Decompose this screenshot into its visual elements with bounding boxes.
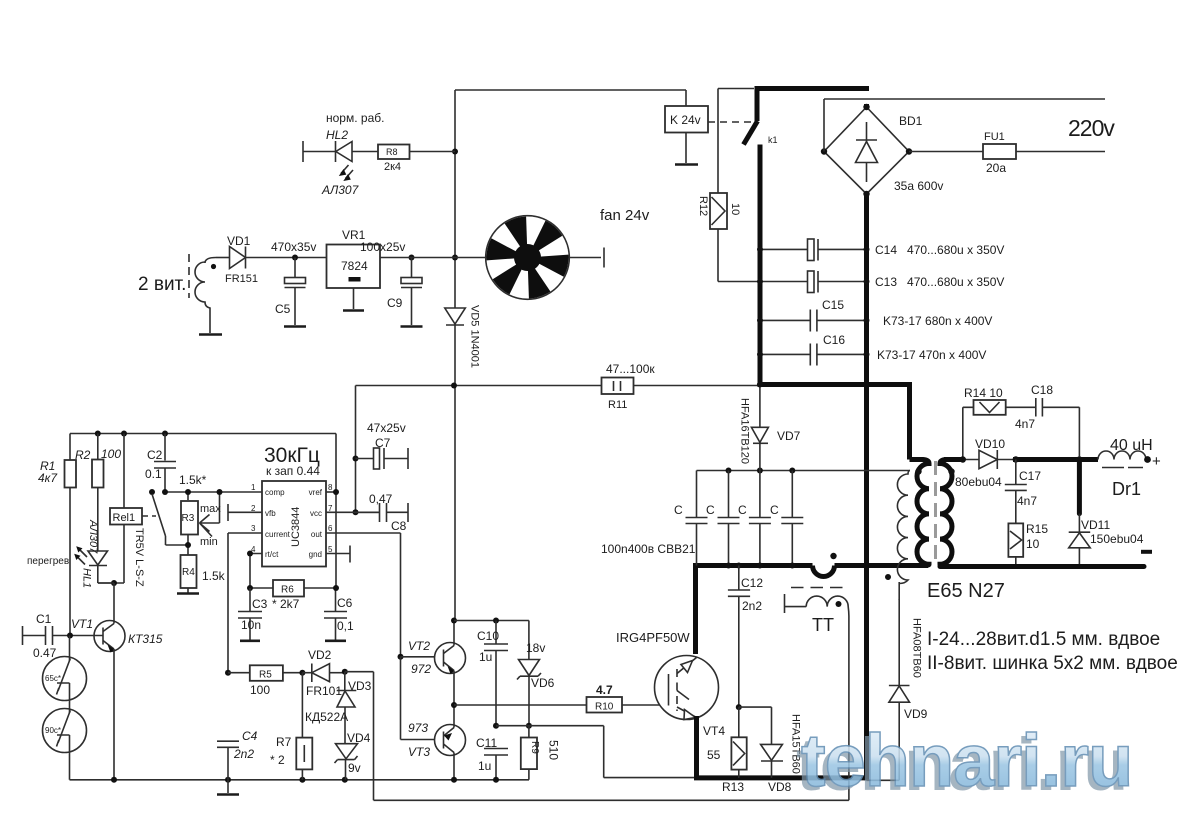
transformer core dashes — [934, 461, 937, 565]
node C11 R9 top — [493, 723, 499, 729]
svg-text:470x35v: 470x35v — [271, 240, 316, 254]
capacitor C9 electrolytic — [411, 258, 413, 278]
svg-text:C11: C11 — [476, 736, 497, 750]
wire snubber top line y470 — [697, 470, 911, 472]
svg-text:0,1: 0,1 — [337, 619, 354, 633]
switch k1 blade — [744, 121, 758, 145]
svg-text:10: 10 — [1026, 537, 1040, 551]
svg-text:R4: R4 — [182, 567, 195, 578]
wire +24v rail vertical — [454, 90, 456, 621]
capacitor C6 0,1 — [324, 612, 347, 619]
svg-text:100: 100 — [101, 447, 121, 461]
svg-text:972: 972 — [411, 662, 431, 676]
node R13 VD8 — [736, 704, 742, 710]
wire thick output minus — [940, 564, 1144, 569]
svg-text:IRG4PF50W: IRG4PF50W — [616, 630, 690, 645]
wire vref vertical down to R6 and C6 — [335, 434, 338, 612]
wire pin4 rtct — [250, 554, 262, 589]
capacitor C1 0.47 — [22, 626, 24, 645]
svg-text:VD11: VD11 — [1081, 518, 1110, 532]
transistor VT3 973 — [435, 725, 466, 756]
diode VD8 HFA15TB60 — [739, 707, 772, 744]
capacitor C snubber 2 — [728, 471, 730, 566]
wire pin2 vfb open terminal — [228, 511, 262, 513]
svg-text:1.5k: 1.5k — [202, 569, 226, 583]
svg-text:1: 1 — [251, 483, 256, 492]
wire thick mains top — [755, 86, 870, 121]
svg-text:R15: R15 — [1026, 522, 1048, 536]
svg-text:R3: R3 — [182, 513, 195, 524]
svg-text:VD7: VD7 — [777, 429, 801, 443]
ground winding — [199, 333, 222, 336]
transformer secondary winding — [940, 460, 958, 567]
svg-text:КТ315: КТ315 — [128, 632, 163, 646]
transformer E65 N27 aux winding — [897, 471, 910, 584]
svg-text:0,47: 0,47 — [369, 492, 393, 506]
svg-text:4n7: 4n7 — [1017, 494, 1037, 508]
svg-text:rt/ct: rt/ct — [265, 550, 279, 559]
LED HL1 перегрев — [88, 551, 108, 565]
svg-text:C3: C3 — [252, 597, 268, 611]
fan 24v motor — [486, 216, 570, 300]
svg-text:АЛ307: АЛ307 — [321, 183, 360, 197]
wire pin7 vcc — [326, 511, 380, 513]
svg-text:55: 55 — [707, 748, 721, 762]
svg-text:UC3844: UC3844 — [290, 507, 302, 547]
svg-text:Rel1: Rel1 — [113, 512, 136, 524]
svg-text:C: C — [706, 503, 715, 517]
svg-text:к зап 0.44: к зап 0.44 — [266, 464, 320, 478]
svg-text:C13 470...680u x 350V: C13 470...680u x 350V — [875, 275, 1004, 289]
capacitor C snubber 4 — [791, 471, 793, 566]
svg-text:C: C — [770, 503, 779, 517]
inductor Dr1 40uH — [1098, 451, 1146, 460]
wire thick BD1 minus vertical — [864, 104, 869, 780]
capacitor C5 electrolytic — [294, 258, 296, 278]
svg-text:C6: C6 — [337, 596, 353, 610]
svg-text:R12: R12 — [697, 196, 709, 216]
wire K24v stubs — [685, 90, 687, 163]
wire R8 to rail — [410, 151, 456, 153]
svg-text:2n2: 2n2 — [742, 599, 762, 613]
svg-text:80ebu04: 80ebu04 — [955, 475, 1002, 489]
svg-text:КД522А: КД522А — [305, 710, 348, 724]
svg-text:20a: 20a — [986, 161, 1006, 175]
wire thick DC bus left vertical — [758, 145, 763, 388]
thermal switch 65c — [43, 657, 87, 701]
svg-text:4.7: 4.7 — [596, 683, 613, 697]
svg-text:R6: R6 — [281, 585, 294, 596]
svg-text:0.47: 0.47 — [33, 646, 57, 660]
svg-text:перегрев: перегрев — [27, 556, 69, 567]
svg-text:K73-17 680n x 400V: K73-17 680n x 400V — [883, 314, 992, 328]
svg-text:FU1: FU1 — [984, 131, 1005, 143]
switch Rel1 contact — [149, 489, 155, 495]
svg-text:FR151: FR151 — [225, 273, 258, 285]
diode VD1 FR151 — [230, 247, 246, 269]
svg-text:90с*: 90с* — [45, 726, 61, 735]
wire collector node to C10 and VD6 — [454, 620, 529, 622]
resistor R7 — [299, 670, 305, 676]
svg-text:VD6: VD6 — [531, 676, 555, 690]
svg-text:II-8вит. шинка 5х2 мм. вдвое: II-8вит. шинка 5х2 мм. вдвое — [927, 653, 1178, 674]
svg-text:C17: C17 — [1019, 469, 1041, 483]
wire VD1 to VR1 — [246, 257, 327, 259]
wire bridge to fuse — [909, 151, 983, 153]
svg-text:VD4: VD4 — [347, 731, 371, 745]
wire R10 to gate — [622, 704, 669, 706]
node C5 junction — [292, 255, 298, 261]
wire dashed winding boundary — [188, 254, 190, 298]
wire driver out to R10 — [454, 704, 587, 706]
svg-text:40 uH: 40 uH — [1110, 437, 1153, 454]
svg-text:10: 10 — [729, 203, 741, 215]
svg-text:C14 470...680u x 350V: C14 470...680u x 350V — [875, 243, 1004, 257]
svg-text:C8: C8 — [391, 519, 407, 533]
svg-text:tehnari.ru: tehnari.ru — [801, 719, 1132, 802]
wire fuse to mains — [1016, 151, 1105, 153]
svg-text:C5: C5 — [275, 302, 291, 316]
transformer primary winding — [910, 460, 930, 566]
diode VD6 zener 18v — [528, 621, 530, 660]
diode VD10 80ebu04 — [960, 459, 979, 461]
wire vcc feed row y385 — [356, 385, 759, 387]
svg-text:C7: C7 — [375, 436, 391, 450]
svg-text:7824: 7824 — [341, 259, 368, 273]
wire thick VT4 emitter — [694, 716, 869, 780]
svg-text:* 2: * 2 — [270, 753, 285, 767]
svg-text:100: 100 — [250, 683, 270, 697]
node fan row / C9 junction — [452, 255, 458, 261]
wire 220v top line — [824, 99, 1105, 152]
svg-text:8: 8 — [328, 483, 333, 492]
svg-text:R2: R2 — [75, 448, 91, 462]
wire gate drive return lineA — [345, 672, 849, 801]
svg-text:E65 N27: E65 N27 — [927, 580, 1005, 602]
svg-text:VD1: VD1 — [227, 234, 251, 248]
svg-text:VT3: VT3 — [408, 745, 430, 759]
svg-text:18v: 18v — [526, 641, 545, 655]
wire Rel1 coil column — [98, 434, 124, 584]
svg-text:C12: C12 — [741, 576, 763, 590]
svg-text:current: current — [265, 530, 291, 539]
wire TT primary hop — [813, 566, 835, 577]
svg-text:VD3: VD3 — [348, 679, 372, 693]
svg-text:3: 3 — [251, 524, 256, 533]
svg-text:C15: C15 — [822, 298, 844, 312]
transistor VT4 IRG4PF50W — [655, 656, 719, 720]
wire pin5 gnd open terminal — [326, 553, 350, 555]
resistor R2 — [97, 434, 99, 460]
capacitor C7 47x25v — [356, 458, 374, 460]
wire pin1 comp line — [165, 491, 262, 493]
svg-text:comp: comp — [265, 488, 285, 497]
svg-text:I-24...28вит.d1.5 мм. вдвое: I-24...28вит.d1.5 мм. вдвое — [927, 629, 1160, 650]
svg-text:k1: k1 — [768, 135, 778, 145]
diode VD4 zener 9v — [336, 744, 358, 759]
node VT2 collector — [451, 618, 457, 624]
svg-text:100x25v: 100x25v — [360, 240, 405, 254]
svg-text:АЛ307: АЛ307 — [87, 519, 99, 554]
winding aux 2 turns — [195, 258, 216, 334]
svg-text:min: min — [200, 536, 218, 548]
ground K24v — [675, 163, 698, 166]
svg-text:HFA16TB120: HFA16TB120 — [739, 398, 751, 464]
capacitor C14 — [760, 248, 867, 250]
svg-text:vcc: vcc — [310, 509, 322, 518]
svg-text:1.5k*: 1.5k* — [179, 473, 207, 487]
capacitor C snubber 3 — [759, 471, 761, 566]
svg-text:fan 24v: fan 24v — [600, 207, 650, 224]
thermal switch 90c — [43, 709, 87, 753]
snubber R14 C18 — [963, 407, 974, 459]
svg-text:Dr1: Dr1 — [1112, 479, 1141, 499]
capacitor C8 0,47 — [356, 511, 380, 513]
svg-text:C2: C2 — [147, 448, 163, 462]
resistor R4 1.5k — [181, 555, 197, 588]
svg-text:C: C — [738, 503, 747, 517]
wire fan to terminal — [569, 257, 601, 259]
svg-text:C16: C16 — [823, 333, 845, 347]
svg-text:* 2k7: * 2k7 — [272, 597, 300, 611]
svg-text:R10: R10 — [595, 702, 614, 713]
svg-text:HL1: HL1 — [81, 568, 93, 588]
svg-text:out: out — [311, 530, 323, 539]
svg-text:6: 6 — [328, 524, 333, 533]
svg-text:0.1: 0.1 — [145, 467, 162, 481]
diode VD7 HFA16TB120 — [759, 385, 761, 428]
svg-text:10n: 10n — [241, 618, 261, 632]
svg-text:510: 510 — [547, 740, 561, 760]
svg-text:R13: R13 — [722, 780, 744, 794]
svg-text:2к4: 2к4 — [384, 161, 401, 173]
wire thin rail to VD9 — [867, 779, 900, 781]
svg-text:gnd: gnd — [309, 550, 322, 559]
transistor VT2 972 — [435, 643, 466, 674]
wire dashed mechanical link k1 — [708, 121, 753, 123]
svg-text:VT1: VT1 — [71, 617, 93, 631]
capacitor C3 10n — [249, 588, 251, 611]
wire thick output plus — [1013, 457, 1098, 462]
capacitor C12 2n2 — [736, 563, 742, 569]
svg-text:47x25v: 47x25v — [367, 421, 406, 435]
diode VD2 FR101 — [302, 672, 311, 674]
wire vref top line y433 — [70, 433, 336, 435]
wire thick bottom of bus to transformer — [758, 382, 911, 460]
svg-text:VD8: VD8 — [768, 780, 792, 794]
wire pin8 vref — [326, 491, 336, 493]
svg-text:R8: R8 — [386, 147, 398, 157]
wire pin3 current sense line — [228, 533, 262, 673]
node emitter midpoint — [451, 702, 457, 708]
svg-text:норм. раб.: норм. раб. — [326, 111, 384, 125]
node driver base — [398, 654, 404, 660]
chip UC3844 — [262, 481, 326, 567]
wire node to emitter line of VT4 — [496, 726, 695, 778]
diode VD11 150ebu04 — [1077, 460, 1082, 514]
wire VT3 base — [401, 657, 444, 740]
capacitor C13 — [760, 281, 867, 283]
relay Rel1 — [110, 508, 142, 525]
svg-text:220v: 220v — [1068, 115, 1115, 141]
capacitor C17 4n7 — [1015, 460, 1017, 485]
svg-text:1u: 1u — [478, 759, 491, 773]
svg-text:150ebu04: 150ebu04 — [1090, 532, 1144, 546]
svg-text:vfb: vfb — [265, 509, 276, 518]
resistor R6 2k7 — [273, 580, 304, 597]
svg-text:R5: R5 — [259, 670, 272, 681]
svg-text:VD2: VD2 — [308, 648, 332, 662]
svg-text:HL2: HL2 — [326, 128, 348, 142]
node TT primary polarity dot — [830, 553, 836, 559]
capacitor C2 0.1 — [164, 434, 166, 461]
resistor R1 4к7 — [69, 434, 71, 461]
wire C7 C8 column — [355, 386, 357, 513]
capacitor C16 — [760, 353, 867, 355]
wire VR1 to fan — [380, 257, 486, 259]
capacitor C10 1u — [495, 621, 497, 644]
svg-text:VT2: VT2 — [408, 639, 430, 653]
wire thick primary return — [693, 563, 928, 654]
regulator VR1 7824 — [327, 245, 381, 289]
svg-text:BD1: BD1 — [899, 114, 923, 128]
svg-text:VT4: VT4 — [703, 724, 725, 738]
resistor R11 47...100к — [602, 378, 634, 395]
svg-text:9v: 9v — [348, 761, 361, 775]
wire pin6 out — [326, 533, 401, 657]
svg-text:2n2: 2n2 — [233, 747, 254, 761]
svg-text:VD5 1N4001: VD5 1N4001 — [469, 305, 481, 368]
wire VT2 base — [401, 656, 444, 658]
svg-text:vref: vref — [309, 488, 323, 497]
capacitor C11 1u — [484, 749, 508, 756]
resistor R8 2к4 — [378, 145, 410, 160]
transformer TT current sense — [784, 594, 786, 613]
resistor R10 4.7 — [587, 697, 623, 713]
resistor R9 510 — [528, 726, 530, 780]
resistor R5 100 — [225, 670, 231, 676]
capacitor C4 2n2 — [217, 741, 239, 747]
transistor VT1 KT315 — [94, 621, 125, 652]
svg-text:TR5V L-S-Z: TR5V L-S-Z — [133, 528, 145, 587]
svg-text:C18: C18 — [1031, 383, 1053, 397]
svg-text:100n400в CBB21: 100n400в CBB21 — [601, 542, 696, 556]
svg-text:+: + — [1152, 453, 1161, 470]
svg-text:VD10: VD10 — [975, 437, 1005, 451]
resistor R12 column — [718, 89, 760, 282]
svg-text:R9: R9 — [529, 741, 540, 754]
capacitor C15 — [760, 319, 867, 321]
node R8 junction — [452, 149, 458, 155]
capacitor C snubber 1 — [696, 471, 698, 566]
svg-text:TT: TT — [812, 615, 834, 635]
rectifier BD1 bridge — [824, 107, 909, 194]
svg-text:C: C — [674, 503, 683, 517]
trimmer R3 — [187, 492, 189, 555]
svg-text:65с*: 65с* — [45, 674, 61, 683]
svg-text:C4: C4 — [242, 729, 258, 743]
svg-text:2 вит.: 2 вит. — [138, 274, 186, 295]
svg-text:973: 973 — [408, 721, 428, 735]
ground rail symbol — [227, 780, 229, 793]
svg-text:35a 600v: 35a 600v — [894, 179, 943, 193]
resistor R15 10 — [1008, 523, 1023, 557]
resistor R13 — [738, 707, 740, 778]
diode VD3 КД522А — [344, 672, 346, 691]
svg-text:K73-17 470n x 400V: K73-17 470n x 400V — [877, 348, 986, 362]
svg-text:max: max — [200, 503, 221, 515]
svg-text:R14 10: R14 10 — [964, 386, 1003, 400]
svg-text:C10: C10 — [477, 629, 499, 643]
svg-text:R11: R11 — [608, 399, 627, 411]
svg-text:C1: C1 — [36, 612, 52, 626]
wire winding to VD1 — [216, 257, 230, 259]
svg-text:C9: C9 — [387, 296, 403, 310]
svg-text:HFA08TB60: HFA08TB60 — [911, 618, 923, 678]
svg-text:5: 5 — [328, 545, 333, 554]
diode VD9 HFA08TB60 — [898, 599, 900, 686]
svg-text:K 24v: K 24v — [670, 113, 701, 127]
diode VD5 1N4001 — [445, 308, 466, 324]
wire ground rail bottom — [70, 779, 530, 781]
svg-text:4к7: 4к7 — [38, 471, 58, 485]
svg-text:47...100к: 47...100к — [606, 362, 655, 376]
wire thick secondary top — [944, 457, 964, 462]
fuse FU1 20a — [983, 144, 1016, 159]
svg-text:R7: R7 — [276, 735, 292, 749]
wire top horizontal to relay coil — [455, 89, 686, 91]
relay coil K24v — [665, 106, 708, 133]
svg-text:1u: 1u — [479, 650, 492, 664]
LED HL2 — [302, 141, 304, 162]
svg-text:4n7: 4n7 — [1015, 417, 1035, 431]
